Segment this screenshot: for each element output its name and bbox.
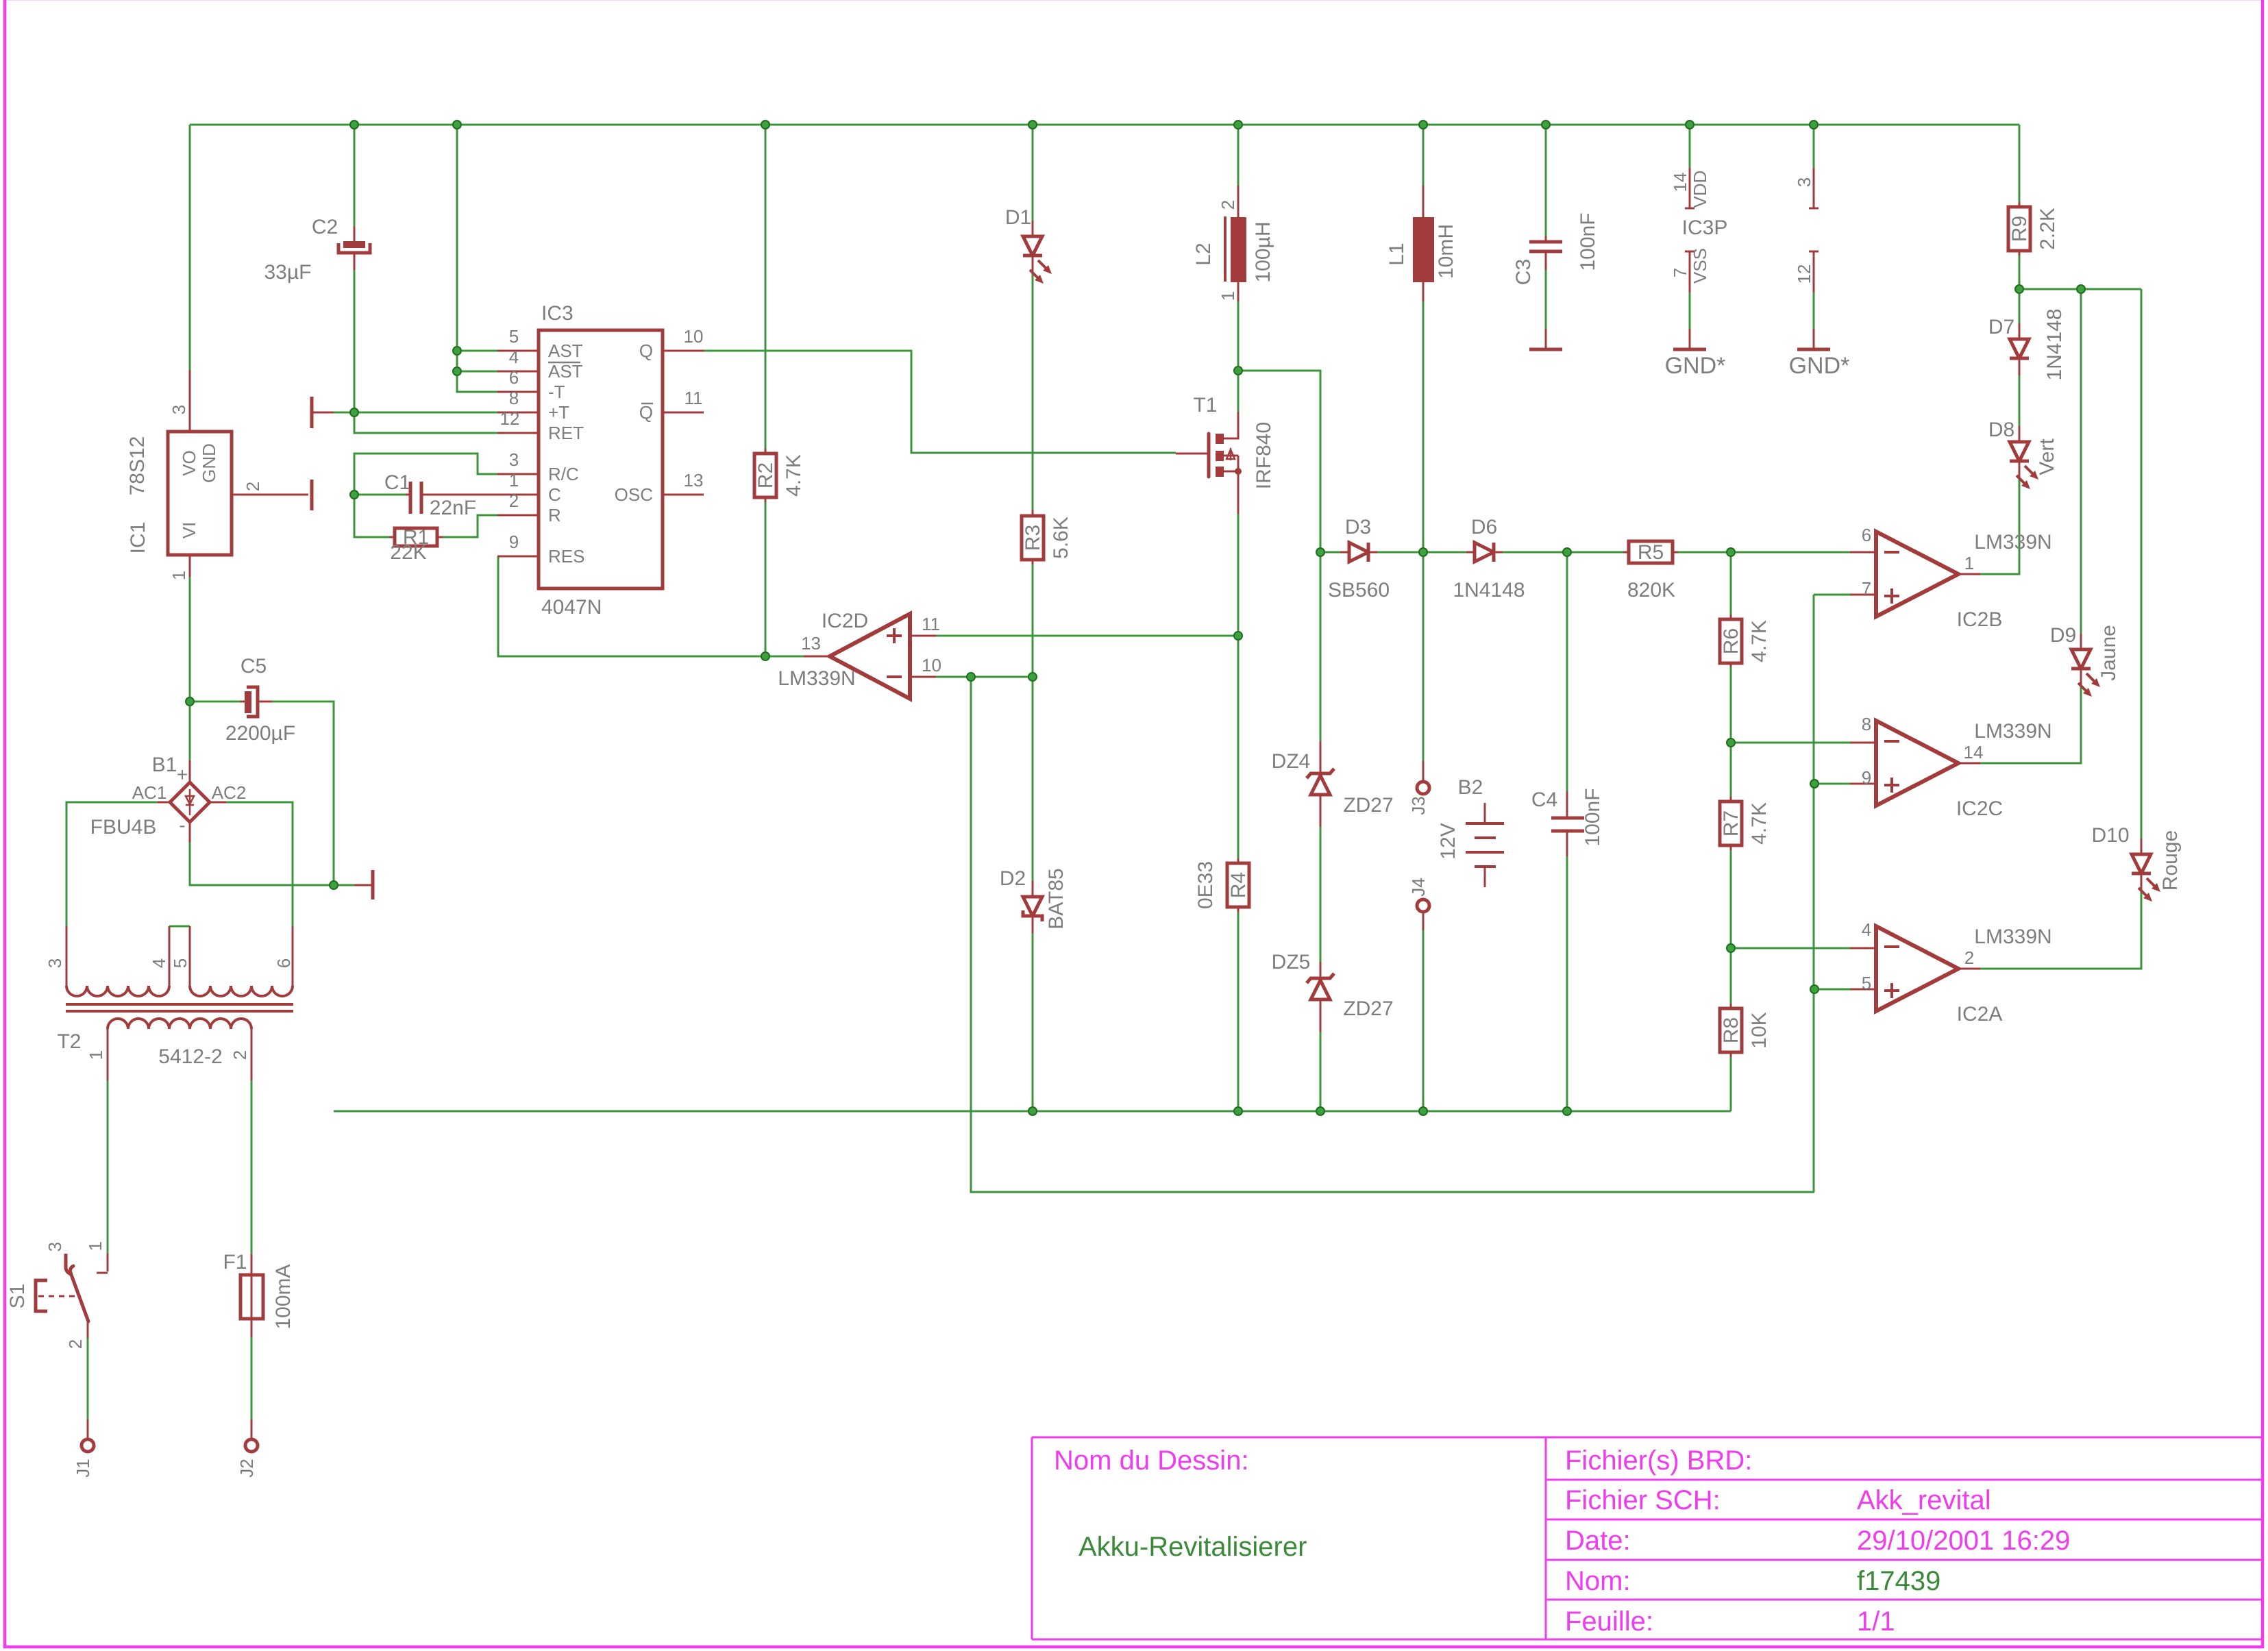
svg-text:-: - <box>179 815 185 836</box>
capacitor C3 <box>1545 236 1547 270</box>
wire J3 J4 branch <box>1422 552 1425 1111</box>
wire R9 branch <box>2019 125 2021 289</box>
wire IC2C inputs <box>1731 743 1850 784</box>
svg-text:12: 12 <box>1794 264 1814 284</box>
svg-text:GND*: GND* <box>1665 353 1726 379</box>
svg-text:12: 12 <box>500 408 520 429</box>
svg-text:5412-2: 5412-2 <box>158 1045 222 1068</box>
capacitor C5 <box>241 701 272 703</box>
svg-text:4047N: 4047N <box>541 596 602 619</box>
svg-text:6: 6 <box>1862 525 1871 545</box>
transformer secondary <box>108 1019 251 1029</box>
wire L2 to T1 drain node <box>1237 125 1240 412</box>
svg-text:VDD: VDD <box>1690 171 1710 208</box>
svg-text:LM339N: LM339N <box>1974 720 2051 743</box>
svg-text:100nF: 100nF <box>1577 212 1599 271</box>
ground B1 minus <box>354 884 371 886</box>
zener DZ5 ZD27 <box>1320 962 1322 1032</box>
svg-text:Rouge: Rouge <box>2159 830 2182 891</box>
svg-text:D6: D6 <box>1471 516 1497 538</box>
svg-text:AST: AST <box>548 361 583 382</box>
IC3 4047N <box>539 330 663 588</box>
wire IC2B plus input <box>1814 595 1850 1192</box>
svg-text:9: 9 <box>509 532 519 552</box>
wire +T from ground <box>334 412 497 414</box>
svg-text:14: 14 <box>1670 173 1690 193</box>
wire C3 branch <box>1545 125 1547 329</box>
junction dots misc <box>350 408 358 417</box>
pad J2 <box>251 1419 253 1439</box>
svg-text:1N4148: 1N4148 <box>1453 579 1525 601</box>
svg-text:VI: VI <box>179 522 199 539</box>
svg-text:J2: J2 <box>236 1458 257 1477</box>
transistor T1 IRF840 <box>1207 434 1211 477</box>
wire D9 to IC2C output <box>1980 289 2081 763</box>
wire IC1 VI to C5 to B1 <box>190 575 334 885</box>
svg-text:4: 4 <box>149 958 169 968</box>
wire +12V top rail <box>190 124 2019 126</box>
wire D1 R3 D2 branch <box>1032 125 1034 1111</box>
svg-text:J1: J1 <box>73 1458 93 1477</box>
IC1 78S12 regulator <box>168 432 232 555</box>
svg-text:2: 2 <box>1218 200 1238 210</box>
svg-text:C5: C5 <box>241 655 267 678</box>
wire T1 source down to R4 <box>1237 514 1240 1111</box>
inductor L2 <box>1224 216 1227 282</box>
svg-text:Date:: Date: <box>1565 1526 1631 1556</box>
resistor R3 <box>1032 510 1034 564</box>
svg-text:9: 9 <box>1862 767 1871 788</box>
svg-text:R: R <box>548 505 561 525</box>
battery B2 12V <box>1484 803 1486 887</box>
svg-text:3: 3 <box>509 449 519 470</box>
zener DZ4 ZD27 <box>1320 741 1322 827</box>
svg-text:3: 3 <box>45 1242 65 1252</box>
wire IC2D minus input <box>936 676 1033 678</box>
svg-text:R9: R9 <box>2008 216 2031 242</box>
wire C2 branch <box>354 125 356 412</box>
svg-text:IC3: IC3 <box>541 302 574 325</box>
svg-text:14: 14 <box>1964 742 1984 762</box>
svg-text:AC1: AC1 <box>132 782 167 803</box>
svg-text:2200µF: 2200µF <box>225 722 295 745</box>
resistor R4 0E33 <box>1237 858 1240 912</box>
svg-text:22nF: 22nF <box>430 497 476 519</box>
svg-text:Fichier SCH:: Fichier SCH: <box>1565 1485 1721 1515</box>
svg-text:3: 3 <box>45 958 65 968</box>
wire IC2P supply pins <box>1813 125 1815 329</box>
LED D9 Jaune <box>2080 634 2082 686</box>
svg-text:8: 8 <box>509 388 519 408</box>
wire RES to IC2D output <box>498 556 804 656</box>
wire D7 D8 to IC2B output <box>1980 289 2019 574</box>
svg-text:78S12: 78S12 <box>126 436 149 496</box>
svg-text:4: 4 <box>509 347 519 367</box>
svg-text:C3: C3 <box>1512 259 1535 285</box>
wire R2 branch <box>765 125 767 656</box>
wire IC2D plus input to T1 source node <box>936 635 1238 637</box>
svg-text:12V: 12V <box>1437 823 1459 859</box>
transformer core <box>66 1004 293 1011</box>
svg-text:B2: B2 <box>1458 776 1483 799</box>
svg-text:1: 1 <box>1218 291 1238 301</box>
svg-text:13: 13 <box>684 470 704 491</box>
wire IC3 ast net vertical <box>457 125 497 392</box>
svg-text:2.2K: 2.2K <box>2036 208 2059 250</box>
svg-text:22K: 22K <box>390 541 426 564</box>
svg-text:IC2A: IC2A <box>1957 1003 2003 1026</box>
svg-text:IC2B: IC2B <box>1957 608 2003 631</box>
diode D7 1N4148 <box>2019 323 2021 375</box>
svg-text:10K: 10K <box>1748 1012 1771 1048</box>
svg-text:Q: Q <box>639 340 653 361</box>
svg-text:Fichier(s) BRD:: Fichier(s) BRD: <box>1565 1445 1752 1476</box>
junction dots top rail <box>350 121 358 129</box>
svg-text:1/1: 1/1 <box>1857 1606 1895 1637</box>
ground GND* IC3P <box>1689 329 1691 348</box>
svg-text:VSS: VSS <box>1690 248 1710 284</box>
title block frame <box>1032 1437 2263 1639</box>
svg-text:IC2D: IC2D <box>822 610 868 632</box>
svg-text:100mA: 100mA <box>272 1264 295 1329</box>
svg-text:R6: R6 <box>1720 628 1742 654</box>
LED D10 Rouge <box>2141 839 2143 891</box>
wire IC2A inputs <box>1731 948 1850 989</box>
svg-text:R2: R2 <box>754 462 777 488</box>
wire C1 RC loop <box>354 454 497 537</box>
svg-text:1N4148: 1N4148 <box>2043 308 2066 380</box>
svg-text:29/10/2001 16:29: 29/10/2001 16:29 <box>1857 1526 2070 1556</box>
svg-text:Q: Q <box>639 402 653 423</box>
svg-text:GND*: GND* <box>1789 353 1850 379</box>
capacitor C2 <box>354 227 356 270</box>
resistor R7 <box>1730 797 1732 850</box>
wire DZ4 DZ5 branch <box>1320 552 1322 1111</box>
ground IC3 +T <box>310 397 314 428</box>
svg-text:GND: GND <box>199 443 219 483</box>
svg-text:Feuille:: Feuille: <box>1565 1606 1653 1637</box>
svg-text:T2: T2 <box>57 1030 81 1053</box>
diode D6 1N4148 <box>1466 551 1503 554</box>
wire T1 drain node to D3 <box>1238 371 1320 552</box>
svg-text:+T: +T <box>548 402 569 423</box>
svg-text:IC3P: IC3P <box>1682 216 1728 239</box>
svg-text:R/C: R/C <box>548 464 579 484</box>
svg-text:Nom:: Nom: <box>1565 1566 1631 1596</box>
wire B1 minus to ground <box>190 843 354 885</box>
svg-text:C: C <box>548 484 561 505</box>
svg-text:1: 1 <box>86 1050 106 1060</box>
resistor R9 <box>2019 202 2021 256</box>
svg-text:S1: S1 <box>6 1284 29 1309</box>
junction dots ground bus <box>1028 1107 1037 1115</box>
svg-text:IC2C: IC2C <box>1956 797 2003 820</box>
svg-text:R8: R8 <box>1720 1017 1742 1043</box>
svg-text:ZD27: ZD27 <box>1343 794 1393 817</box>
ground C3 <box>1545 329 1547 348</box>
svg-text:RES: RES <box>548 546 584 567</box>
wire Q to T1 gate <box>704 351 1176 453</box>
svg-text:11: 11 <box>922 614 940 634</box>
svg-text:2: 2 <box>243 482 263 491</box>
svg-text:1: 1 <box>1964 553 1974 573</box>
wire IC1 VO to rail <box>189 125 191 370</box>
pad J4 <box>1417 899 1429 912</box>
svg-text:Nom du Dessin:: Nom du Dessin: <box>1054 1445 1249 1476</box>
wire L1 branch <box>1422 125 1425 552</box>
bridge rectifier B1 FBU4B <box>170 782 210 822</box>
wire D3 D6 R5 net <box>1320 551 1850 554</box>
svg-text:DZ5: DZ5 <box>1272 951 1311 973</box>
switch S1 <box>97 1254 108 1273</box>
wire RET link <box>354 412 497 433</box>
wire T2 jumper pins 4-5 <box>169 926 190 928</box>
svg-text:-T: -T <box>548 382 565 402</box>
svg-text:Akku-Revitalisierer: Akku-Revitalisierer <box>1078 1532 1307 1562</box>
svg-text:D9: D9 <box>2050 624 2076 647</box>
wire LED feed rail <box>2019 288 2141 290</box>
svg-text:DZ4: DZ4 <box>1272 750 1311 773</box>
wire IC3P supply pins <box>1689 125 1691 329</box>
wire C4 branch <box>1566 552 1568 1111</box>
LED D8 Vert <box>2019 426 2021 478</box>
svg-text:10: 10 <box>684 326 704 347</box>
wire D10 to IC2A output <box>1980 289 2141 969</box>
svg-text:13: 13 <box>801 633 821 654</box>
svg-text:6: 6 <box>273 958 294 968</box>
svg-text:L1: L1 <box>1385 243 1408 265</box>
svg-text:2: 2 <box>509 491 519 511</box>
svg-text:D10: D10 <box>2091 824 2129 847</box>
resistor R2 <box>765 449 767 502</box>
svg-text:BAT85: BAT85 <box>1045 868 1068 930</box>
svg-text:R3: R3 <box>1022 525 1044 551</box>
svg-text:100nF: 100nF <box>1581 788 1604 846</box>
svg-text:5.6K: 5.6K <box>1050 517 1072 559</box>
op-amp IC2C LM339N <box>1876 721 1958 806</box>
svg-text:SB560: SB560 <box>1328 579 1390 601</box>
svg-text:R4: R4 <box>1227 872 1250 898</box>
svg-text:8: 8 <box>1862 714 1871 734</box>
capacitor C4 <box>1566 791 1568 856</box>
power pins IC2P <box>1813 168 1815 293</box>
svg-text:4.7K: 4.7K <box>1748 802 1771 845</box>
ground IC1 pin2 <box>310 480 314 510</box>
svg-text:1: 1 <box>509 470 519 491</box>
svg-text:IC1: IC1 <box>127 522 149 554</box>
svg-text:f17439: f17439 <box>1857 1566 1940 1596</box>
wire T2 pin1 to S1 <box>107 1080 109 1254</box>
svg-text:+: + <box>177 764 188 785</box>
svg-text:C1: C1 <box>384 471 410 494</box>
svg-text:D2: D2 <box>1000 867 1026 890</box>
svg-text:820K: 820K <box>1627 579 1675 601</box>
resistor R5 <box>1623 551 1678 554</box>
svg-text:10mH: 10mH <box>1435 224 1457 279</box>
svg-text:Akk_revital: Akk_revital <box>1857 1485 1991 1515</box>
svg-text:2: 2 <box>65 1339 86 1349</box>
svg-text:1: 1 <box>169 571 189 580</box>
svg-text:B1: B1 <box>152 754 177 776</box>
svg-text:10: 10 <box>922 655 941 675</box>
svg-text:RET: RET <box>548 423 584 443</box>
svg-text:6: 6 <box>509 367 519 388</box>
transformer T2 5412-2 <box>66 986 169 996</box>
diode D3 SB560 <box>1340 551 1377 554</box>
pad J3 <box>1422 761 1425 782</box>
svg-text:33µF: 33µF <box>264 261 312 284</box>
svg-text:100µH: 100µH <box>1252 221 1274 282</box>
svg-text:7: 7 <box>1670 268 1690 277</box>
svg-text:IRF840: IRF840 <box>1253 422 1275 489</box>
svg-text:2: 2 <box>1964 947 1974 968</box>
svg-text:ZD27: ZD27 <box>1343 997 1393 1020</box>
svg-text:4.7K: 4.7K <box>1748 620 1771 662</box>
op-amp IC2A LM339N <box>1876 926 1958 1011</box>
svg-text:FBU4B: FBU4B <box>90 816 157 839</box>
svg-text:LM339N: LM339N <box>778 667 855 690</box>
wire S1 pin2 to J1 <box>87 1338 89 1419</box>
svg-text:L2: L2 <box>1192 243 1215 265</box>
power pins IC3P <box>1689 168 1691 293</box>
svg-text:Vert: Vert <box>2036 438 2058 475</box>
svg-text:LM339N: LM339N <box>1974 926 2051 948</box>
wire ground bus bottom <box>334 1110 1731 1113</box>
resistor R8 <box>1730 1004 1732 1057</box>
svg-text:D7: D7 <box>1988 316 2014 338</box>
wire R6 R7 R8 chain <box>1730 552 1732 1111</box>
op-amp IC2D LM339N <box>830 614 910 699</box>
capacitor C1 <box>406 494 497 496</box>
pad J1 <box>87 1419 89 1439</box>
svg-text:7: 7 <box>1862 578 1871 599</box>
svg-text:J3: J3 <box>1408 796 1429 815</box>
svg-text:VO: VO <box>179 450 199 476</box>
svg-text:D3: D3 <box>1345 516 1371 538</box>
svg-text:AST: AST <box>548 340 583 361</box>
svg-text:T1: T1 <box>1193 394 1217 417</box>
op-amp IC2B LM339N <box>1876 532 1958 617</box>
svg-text:R7: R7 <box>1720 810 1742 836</box>
svg-text:5: 5 <box>1862 973 1871 993</box>
svg-text:0E33: 0E33 <box>1194 861 1217 909</box>
svg-text:5: 5 <box>170 958 190 968</box>
fuse F1 100mA <box>251 1254 253 1319</box>
svg-text:3: 3 <box>169 405 189 414</box>
svg-text:5: 5 <box>509 326 519 347</box>
diode D2 BAT85 <box>1032 881 1034 933</box>
svg-text:Jaune: Jaune <box>2097 625 2120 681</box>
wire B1 AC2 to T2 pin6 <box>226 802 293 926</box>
svg-text:4: 4 <box>1862 919 1871 940</box>
svg-text:4.7K: 4.7K <box>782 454 805 497</box>
wire B1 AC1 to T2 pin3 <box>66 802 158 926</box>
resistor R6 <box>1730 615 1732 667</box>
svg-text:2: 2 <box>230 1050 250 1060</box>
svg-text:F1: F1 <box>223 1251 247 1274</box>
resistor R1 <box>389 536 443 538</box>
ground GND* IC2P <box>1813 329 1815 348</box>
svg-text:J4: J4 <box>1408 878 1429 896</box>
svg-text:D8: D8 <box>1988 419 2014 441</box>
svg-text:D1: D1 <box>1005 206 1031 229</box>
svg-text:3: 3 <box>1794 177 1814 187</box>
wire minus net down and right rail <box>971 677 1814 1192</box>
svg-text:AC2: AC2 <box>212 782 247 803</box>
wire F1 to J2 <box>251 1337 253 1419</box>
LED D1 <box>1032 221 1034 273</box>
svg-text:LM339N: LM339N <box>1974 531 2051 554</box>
svg-text:OSC: OSC <box>615 484 653 505</box>
svg-text:R5: R5 <box>1638 541 1664 564</box>
svg-text:C4: C4 <box>1531 789 1557 811</box>
svg-text:1: 1 <box>85 1241 106 1251</box>
svg-text:11: 11 <box>685 388 703 408</box>
wire T2 pin2 to F1 <box>251 1080 253 1254</box>
inductor L1 <box>1413 217 1434 282</box>
svg-text:C2: C2 <box>312 216 338 238</box>
